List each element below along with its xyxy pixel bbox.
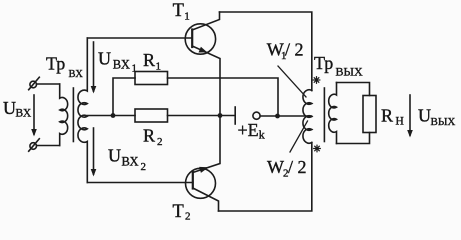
resistor Rn — [363, 96, 376, 133]
label W1/2 — [267, 40, 304, 63]
label pointer W1 — [278, 66, 306, 97]
label +Ek — [238, 120, 265, 142]
wire — [37, 83, 60, 85]
arrow U_vx — [31, 95, 37, 137]
wire +Ek to center tap — [260, 115, 311, 117]
svg-text:ВЫХ: ВЫХ — [431, 116, 456, 128]
svg-text:ВХ: ВХ — [69, 69, 84, 80]
svg-text:U: U — [418, 106, 431, 126]
svg-text:Т: Т — [173, 1, 184, 21]
label R2 — [143, 126, 163, 149]
svg-text:U: U — [98, 49, 111, 69]
arrow U_vx2 — [91, 128, 97, 177]
svg-text:ВХ: ВХ — [16, 108, 32, 120]
wire top collector run — [220, 12, 312, 91]
wire node to R2 — [113, 115, 135, 117]
svg-text:R: R — [143, 126, 155, 146]
svg-text:+Е: +Е — [238, 120, 259, 140]
svg-text:1: 1 — [156, 61, 162, 73]
svg-text:R: R — [143, 50, 155, 70]
node R1 to supply rail — [275, 114, 280, 119]
label U_vx — [3, 98, 32, 120]
svg-text:Тр: Тр — [46, 54, 65, 74]
terminal +Ek — [253, 112, 260, 119]
label U_vx2 — [108, 146, 146, 173]
transformer Tr_vx core — [72, 88, 74, 142]
label Tr_vx — [46, 54, 83, 81]
svg-text:/ 2: / 2 — [285, 40, 304, 60]
svg-text:W: W — [267, 157, 284, 177]
label W2/2 — [267, 157, 307, 180]
svg-text:Т: Т — [173, 202, 184, 220]
supply bar — [234, 107, 236, 124]
wire R1 right — [168, 78, 279, 116]
label Rn — [381, 106, 404, 128]
svg-text:2: 2 — [141, 161, 147, 173]
transformer Tr_vx primary winding — [60, 84, 68, 146]
polarity mark top — [313, 77, 320, 84]
svg-text:R: R — [381, 106, 393, 126]
label pointer W2 — [290, 121, 308, 152]
polarity mark bottom — [314, 145, 321, 152]
resistor R2 — [135, 109, 168, 122]
svg-text:1: 1 — [132, 63, 138, 75]
label Tr_vyx — [314, 53, 363, 79]
wire R2 right — [168, 115, 221, 117]
label R1 — [143, 50, 161, 73]
wire T2 base — [87, 182, 193, 184]
wire node to R1 — [113, 78, 135, 116]
svg-text:2: 2 — [185, 211, 191, 221]
transformer Tr_vx secondary winding — [78, 38, 87, 183]
input terminal bottom — [29, 139, 40, 152]
wire T1 base — [87, 37, 192, 39]
svg-text:ВХ: ВХ — [113, 58, 130, 72]
wire emitters to supply bar — [220, 115, 235, 117]
svg-text:ВЫХ: ВЫХ — [336, 65, 363, 79]
resistor R1 — [135, 72, 168, 85]
wire — [37, 145, 60, 147]
svg-text:ВХ: ВХ — [122, 155, 139, 169]
transformer Tr_vyx core — [323, 88, 325, 142]
svg-text:k: k — [259, 128, 265, 142]
arrow U_vx1 — [91, 42, 97, 94]
svg-text:Тр: Тр — [314, 53, 333, 73]
input terminal top — [29, 77, 40, 90]
transistor T2 — [186, 116, 221, 212]
svg-text:2: 2 — [157, 136, 163, 148]
svg-text:U: U — [3, 98, 16, 118]
wire secondary to Rn top — [337, 83, 370, 96]
arrow U_vyx — [407, 95, 413, 138]
label U_vyx — [418, 106, 455, 129]
transformer Tr_vyx secondary winding — [329, 83, 337, 144]
wire center tap to node — [87, 115, 113, 117]
svg-text:1: 1 — [184, 11, 190, 23]
svg-text:U: U — [108, 146, 121, 166]
wire Rn bottom to secondary — [337, 133, 370, 144]
transistor T1 — [185, 12, 220, 116]
svg-text:Н: Н — [396, 116, 404, 128]
node input center tap — [111, 113, 116, 118]
node emitters junction — [218, 113, 223, 118]
label T1 — [173, 1, 190, 23]
wire bottom collector run — [219, 143, 312, 212]
label U_vx1 — [98, 49, 137, 75]
label T2 — [173, 202, 191, 223]
svg-text:/ 2: / 2 — [288, 157, 307, 177]
transformer Tr_vyx primary winding — [303, 90, 312, 143]
